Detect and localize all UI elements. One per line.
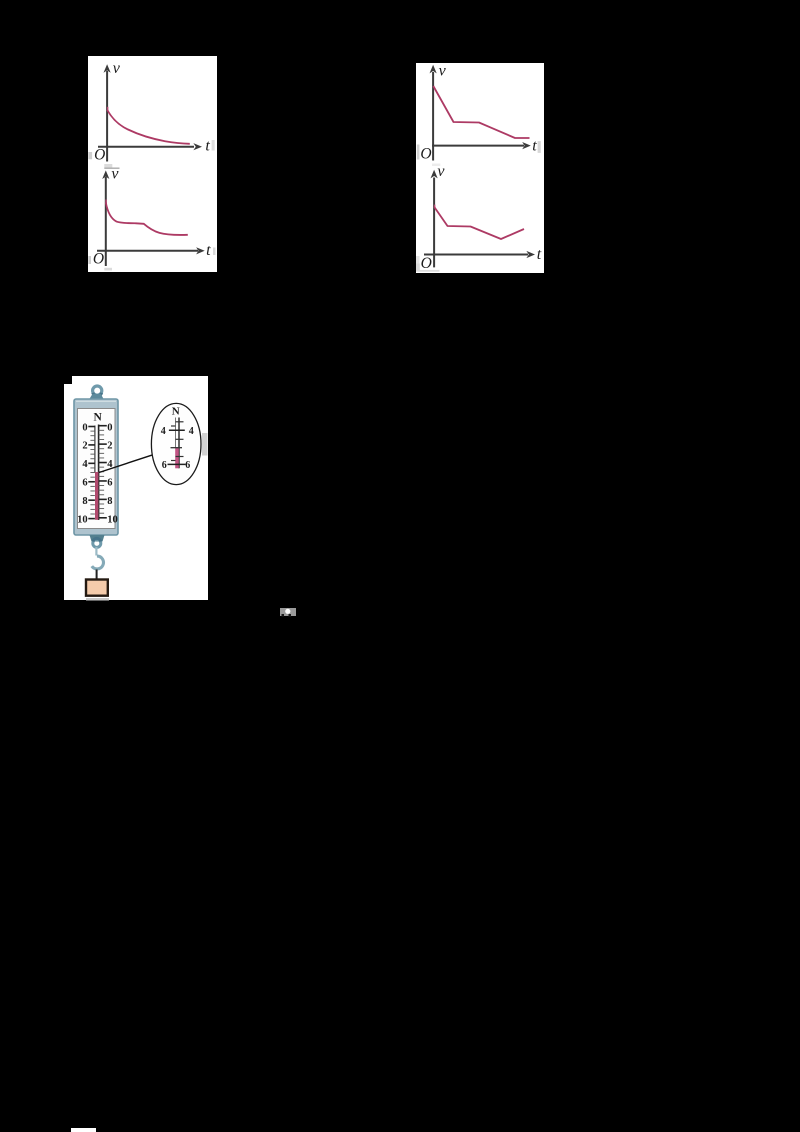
panel: left graphs white background xyxy=(88,56,217,272)
spring scale top ring xyxy=(93,386,102,396)
artifact: grey bar at scale panel right edge xyxy=(202,433,208,456)
svg-text:t: t xyxy=(205,138,210,155)
graph A v-axis xyxy=(104,64,111,161)
svg-text:0: 0 xyxy=(82,422,87,433)
magnifier ellipse xyxy=(151,403,201,484)
artifact: grey bar left edge of graph B xyxy=(417,145,420,160)
scale numbers left xyxy=(77,422,88,525)
hook xyxy=(92,556,104,569)
svg-text:t: t xyxy=(206,242,211,259)
graph C stepped decay curve xyxy=(106,203,188,235)
svg-text:10: 10 xyxy=(107,514,118,525)
svg-text:O: O xyxy=(93,250,104,267)
artifact: grey caption blob xyxy=(280,608,296,617)
magnifier N label xyxy=(172,406,180,418)
artifact: grey bar left of graph A origin xyxy=(88,152,92,159)
graph C t-axis xyxy=(97,247,205,254)
graph A t label xyxy=(205,138,210,155)
svg-text:6: 6 xyxy=(185,460,190,471)
spring scale window xyxy=(78,409,116,529)
artifact: white strip bottom left xyxy=(71,1128,96,1132)
graph A t-axis xyxy=(98,143,202,150)
magnifier right rail xyxy=(178,418,180,469)
string from hook to block xyxy=(96,570,98,580)
graph D curve start stub xyxy=(434,205,436,208)
graph D v-axis xyxy=(431,170,438,268)
svg-text:2: 2 xyxy=(82,441,87,452)
graph C curve start stub xyxy=(105,200,107,204)
scale red indicator bar xyxy=(95,472,98,520)
artifact: grey smudge under block xyxy=(86,598,109,601)
svg-text:10: 10 xyxy=(77,514,88,525)
graph C t label xyxy=(206,242,211,259)
graph C v-axis xyxy=(102,170,109,266)
artifact: grey bar right of graph C t label xyxy=(213,248,216,256)
artifact: grey strip bottom of left panel xyxy=(104,268,112,271)
svg-text:6: 6 xyxy=(82,478,87,489)
scale minor ticks xyxy=(90,430,104,514)
graph B v-axis xyxy=(430,65,437,161)
magnifier ticks xyxy=(168,422,186,465)
artifact: faint strip between right graphs xyxy=(432,164,440,167)
graph D v label xyxy=(437,163,445,180)
graph A origin O xyxy=(94,146,105,163)
graph B t-axis xyxy=(432,142,531,149)
panel: right graphs white background xyxy=(416,63,544,273)
svg-text:v: v xyxy=(113,60,121,77)
graph B t label xyxy=(532,137,537,154)
spring scale top collar mount xyxy=(89,394,104,399)
scale left rail xyxy=(94,426,96,473)
svg-text:8: 8 xyxy=(107,496,112,507)
spring scale body xyxy=(74,399,118,535)
svg-text:6: 6 xyxy=(107,478,112,489)
graph B origin O xyxy=(420,145,431,162)
svg-text:8: 8 xyxy=(82,496,87,507)
svg-text:N: N xyxy=(172,406,180,418)
magnifier red indicator xyxy=(175,448,179,468)
svg-text:O: O xyxy=(94,146,105,163)
graph D origin O xyxy=(421,255,432,272)
graph A curve start stub xyxy=(107,107,109,111)
scale unit label N xyxy=(93,412,102,424)
artifact: black notch on scale panel corner xyxy=(64,376,72,384)
artifact: grey bar right of graph A t label xyxy=(212,140,215,151)
artifact: grey bar right of graph B t label xyxy=(538,141,541,153)
scale major ticks xyxy=(88,426,107,519)
panel: spring scale white background xyxy=(64,376,208,600)
svg-text:O: O xyxy=(421,255,432,272)
spring scale bottom ring xyxy=(93,538,101,547)
svg-text:4: 4 xyxy=(161,426,166,437)
svg-text:t: t xyxy=(532,137,537,154)
graph D t label xyxy=(537,246,542,263)
svg-text:6: 6 xyxy=(162,460,167,471)
svg-text:t: t xyxy=(537,246,542,263)
scale right rail xyxy=(98,425,100,521)
artifact: grey corner bottom-left of graph D xyxy=(416,256,440,272)
hook stem xyxy=(95,547,97,556)
graph C v label xyxy=(111,165,119,182)
svg-text:v: v xyxy=(439,63,447,80)
svg-text:4: 4 xyxy=(189,426,194,437)
spring scale bottom collar xyxy=(90,535,105,542)
svg-text:0: 0 xyxy=(107,422,112,433)
svg-text:2: 2 xyxy=(107,441,112,452)
graph C origin O xyxy=(93,250,104,267)
artifact: grey strip between left graphs xyxy=(104,164,119,168)
svg-text:O: O xyxy=(420,145,431,162)
graph A decay curve xyxy=(107,110,190,144)
weight block xyxy=(86,580,108,596)
artifact: grey bar left of graph C origin xyxy=(88,256,91,264)
svg-text:N: N xyxy=(93,412,102,424)
magnifier left rail xyxy=(175,418,177,449)
magnifier connector line xyxy=(99,455,153,473)
graph B segmented curve xyxy=(433,86,529,138)
graph A v label xyxy=(113,60,121,77)
graph B v label xyxy=(439,63,447,80)
graph D t-axis xyxy=(424,251,535,258)
svg-text:4: 4 xyxy=(82,459,88,470)
graph D dip-and-rise curve xyxy=(434,207,524,239)
magnifier numbers xyxy=(161,426,194,471)
scale numbers right xyxy=(107,422,118,525)
